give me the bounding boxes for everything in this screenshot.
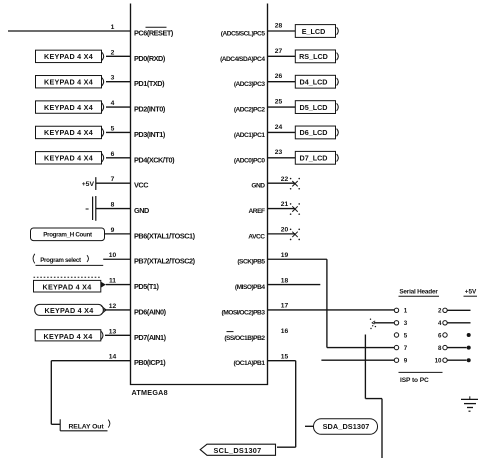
svg-text:13: 13 [109, 328, 117, 335]
svg-text:(ADC4/SDA)PC4: (ADC4/SDA)PC4 [220, 56, 265, 63]
wire pin 23 [268, 157, 296, 159]
net flag KEYPAD 4 X4 (pin 5) [36, 126, 104, 138]
svg-text:E_LCD: E_LCD [302, 27, 326, 36]
svg-text:8: 8 [111, 202, 115, 209]
svg-text:9: 9 [111, 227, 115, 234]
no-connect cross pin 20 [290, 228, 300, 240]
svg-text:ISP to PC: ISP to PC [400, 377, 429, 384]
ISP to PC overline [399, 371, 443, 373]
svg-text:10: 10 [109, 252, 117, 259]
svg-text:D4_LCD: D4_LCD [300, 78, 328, 87]
svg-text:+5V: +5V [82, 181, 95, 188]
wire pin 13 [105, 334, 131, 336]
net flag SCL_DS1307 [200, 444, 275, 455]
svg-text:PD3(INT1): PD3(INT1) [134, 130, 166, 139]
svg-text:KEYPAD 4 X4: KEYPAD 4 X4 [44, 128, 93, 137]
no-connect cross pin 22 [290, 178, 300, 190]
svg-text:5: 5 [111, 125, 115, 132]
junction dot pin 10 [467, 358, 471, 362]
svg-text:(ADC2)PC2: (ADC2)PC2 [234, 107, 266, 114]
header pin 5 circle [394, 333, 398, 337]
header pin 3 circle [394, 321, 398, 325]
power +5V bar [95, 177, 97, 190]
wire pin 17 MOSI to header pin 1 [268, 309, 395, 311]
svg-text:PD0(RXD): PD0(RXD) [134, 54, 166, 63]
svg-text:D6_LCD: D6_LCD [300, 128, 328, 137]
wire pin 27 [268, 55, 296, 57]
wire pin 6 [106, 157, 131, 159]
svg-text:4: 4 [111, 100, 115, 107]
net flag E_LCD [295, 25, 338, 38]
net flag KEYPAD 4 X4 (pin 13) [35, 330, 103, 341]
svg-text:2: 2 [111, 49, 115, 56]
wire pin 22 [268, 182, 295, 184]
net flag Program_H Count [31, 228, 105, 241]
ground bar long [95, 196, 97, 221]
svg-text:(MISO)PB4: (MISO)PB4 [235, 284, 265, 291]
svg-text:1: 1 [111, 24, 115, 31]
svg-text:PB7(XTAL2/TOSC2): PB7(XTAL2/TOSC2) [134, 257, 196, 266]
svg-text:(ADC3)PC3: (ADC3)PC3 [234, 81, 266, 88]
svg-text:PD7(AIN1): PD7(AIN1) [134, 333, 167, 342]
wire pin 3 [106, 81, 131, 83]
svg-text:12: 12 [109, 303, 117, 310]
svg-text:KEYPAD 4 X4: KEYPAD 4 X4 [45, 306, 94, 315]
svg-text:6: 6 [438, 332, 442, 339]
svg-text:RELAY Out: RELAY Out [69, 423, 105, 430]
svg-text:GND: GND [134, 206, 149, 215]
header pin 1 circle [394, 308, 398, 312]
svg-text:11: 11 [109, 278, 116, 285]
wire pin 26 [268, 81, 296, 83]
junction dot pin 8 [467, 346, 471, 350]
wire pin 19 SCK horizontal [268, 258, 327, 260]
wire pin 28 [268, 30, 296, 32]
wire SCK to header pin 7 [327, 347, 394, 349]
svg-text:GND: GND [251, 183, 265, 190]
svg-text:(OC1A)PB1: (OC1A)PB1 [233, 360, 265, 367]
header pin 2 circle [443, 308, 447, 312]
wire SDA stub [305, 425, 313, 427]
svg-text:1: 1 [404, 308, 408, 315]
wire pin1 /RESET to left edge [8, 30, 131, 32]
svg-text:9: 9 [404, 358, 408, 365]
wire pin 24 [268, 131, 296, 133]
svg-text:3: 3 [404, 320, 408, 327]
svg-text:(ADC5/SCL)PC5: (ADC5/SCL)PC5 [221, 31, 266, 38]
pin 16 overline over SS [227, 331, 234, 333]
wire to relay flag [51, 423, 60, 425]
svg-text:Program_H Count: Program_H Count [43, 232, 92, 239]
svg-text:D5_LCD: D5_LCD [300, 103, 328, 112]
+5V underline [464, 295, 478, 297]
header pin 9 circle [394, 358, 398, 362]
svg-text:PD6(AIN0): PD6(AIN0) [134, 307, 167, 316]
wire pin 2 [106, 55, 131, 57]
svg-text:7: 7 [404, 345, 408, 352]
svg-text:16: 16 [281, 328, 289, 335]
svg-text:10: 10 [435, 358, 442, 365]
wire pin 4 [106, 106, 131, 108]
svg-text:4: 4 [438, 320, 442, 327]
wire header pin 4 [447, 322, 470, 324]
header pin 6 circle [443, 333, 447, 337]
net flag D7_LCD [295, 151, 338, 164]
svg-text:27: 27 [275, 48, 283, 55]
svg-text:25: 25 [275, 98, 283, 105]
wire pin 14 vertical [50, 361, 52, 425]
svg-text:SDA_DS1307: SDA_DS1307 [323, 422, 370, 431]
svg-text:PB6(XTAL1/TOSC1): PB6(XTAL1/TOSC1) [134, 231, 196, 240]
wire pin 14 horizontal [51, 360, 130, 362]
wire pin 12 [103, 309, 130, 311]
wire header pin 10 [447, 359, 466, 361]
svg-text:19: 19 [281, 252, 289, 259]
net flag RELAY Out [60, 419, 110, 431]
svg-text:22: 22 [281, 176, 289, 183]
wire SCK vertical [326, 259, 328, 347]
junction dot pin 6 [467, 333, 471, 337]
svg-text:8: 8 [438, 345, 442, 352]
svg-text:ATMEGA8: ATMEGA8 [132, 388, 168, 397]
wire pin 7 VCC [96, 182, 131, 184]
svg-text:VCC: VCC [134, 181, 149, 190]
pin 1 overline over RESET [146, 26, 167, 28]
svg-text:Program select: Program select [40, 257, 81, 264]
net flag KEYPAD 4 X4 (pin 2) [36, 50, 104, 62]
wire pin 15 horizontal [268, 360, 296, 362]
no-connect cross pin 21 [290, 203, 300, 215]
svg-text:KEYPAD 4 X4: KEYPAD 4 X4 [44, 154, 93, 163]
header pin 10 circle [443, 358, 447, 362]
svg-text:AVCC: AVCC [248, 233, 265, 240]
svg-text:17: 17 [281, 303, 289, 310]
svg-text:PC6(RESET): PC6(RESET) [134, 29, 174, 38]
svg-text:(SS/OC1B)PB2: (SS/OC1B)PB2 [224, 335, 265, 342]
svg-text:2: 2 [438, 308, 442, 315]
ground [461, 399, 478, 411]
net flag KEYPAD 4 X4 (pin 3) [36, 76, 104, 88]
svg-text:PD5(T1): PD5(T1) [134, 282, 159, 291]
wire header pin 5 jog [365, 398, 382, 400]
wire pin 20 [268, 233, 295, 235]
net flag D6_LCD [295, 126, 338, 139]
header pin 4 circle [443, 321, 447, 325]
svg-text:D7_LCD: D7_LCD [300, 154, 328, 163]
wire pin 8 GND [96, 208, 131, 210]
wire pin 11 [106, 284, 131, 286]
wire pin 15 vertical [295, 361, 297, 448]
svg-text:6: 6 [111, 151, 115, 158]
svg-text:(MOSI/OC2)PB3: (MOSI/OC2)PB3 [222, 309, 266, 316]
serial header title underline [399, 295, 440, 297]
net flag D4_LCD [295, 75, 338, 88]
svg-text:SCL_DS1307: SCL_DS1307 [214, 446, 262, 455]
svg-text:26: 26 [275, 73, 283, 80]
wire header pin 5 vertical [364, 335, 366, 399]
svg-text:(ADC0)PC0: (ADC0)PC0 [234, 157, 266, 164]
svg-text:7: 7 [111, 176, 115, 183]
net flag KEYPAD 4 X4 (pin 11) [34, 280, 106, 292]
net flag SDA_DS1307 [314, 419, 378, 435]
wire header pin 3 with arrow [370, 319, 395, 330]
svg-text:(ADC1)PC1: (ADC1)PC1 [234, 132, 266, 139]
wire pin 10 [103, 258, 130, 260]
svg-text:23: 23 [275, 149, 283, 156]
svg-text:KEYPAD 4 X4: KEYPAD 4 X4 [44, 103, 93, 112]
svg-text:RS_LCD: RS_LCD [299, 52, 328, 61]
svg-text:(SCK)PB5: (SCK)PB5 [237, 259, 265, 266]
svg-text:KEYPAD 4 X4: KEYPAD 4 X4 [43, 282, 92, 291]
net flag Program select [33, 254, 103, 266]
svg-text:3: 3 [111, 75, 115, 82]
dotted line above pin11 flag [34, 276, 101, 278]
svg-text:PD2(INT0): PD2(INT0) [134, 105, 166, 114]
wire pin 9 [105, 233, 131, 235]
ground minus tick [86, 208, 89, 210]
svg-text:KEYPAD 4 X4: KEYPAD 4 X4 [44, 332, 93, 341]
op-amp U1 ATMEGA8 IC body (top edge cut off) [131, 4, 268, 385]
svg-text:PB0(ICP1): PB0(ICP1) [134, 358, 166, 367]
svg-text:18: 18 [281, 277, 289, 284]
svg-text:21: 21 [281, 201, 289, 208]
net flag RS_LCD [295, 50, 338, 63]
svg-text:20: 20 [281, 227, 289, 234]
svg-text:PD1(TXD): PD1(TXD) [134, 79, 165, 88]
net flag KEYPAD 4 X4 (pin 6) [36, 152, 104, 164]
header pin 8 circle [443, 345, 447, 349]
wire to SCL flag [277, 446, 296, 448]
wire header pin 8 [447, 347, 466, 349]
wire header pin 5 down to edge [381, 399, 383, 458]
wire header pin 9 [321, 359, 394, 361]
svg-text:5: 5 [404, 332, 408, 339]
svg-text:24: 24 [275, 124, 283, 131]
wire pin 25 [268, 106, 296, 108]
wire header pin 2 [447, 309, 470, 311]
header pin 7 circle [394, 345, 398, 349]
wire pin 5 [106, 131, 131, 133]
net flag D5_LCD [295, 101, 338, 114]
ground stub [469, 396, 471, 399]
net flag KEYPAD 4 X4 (pin 12) [35, 304, 107, 315]
svg-text:+5V: +5V [465, 289, 477, 296]
svg-text:Serial Header: Serial Header [399, 289, 438, 296]
svg-text:15: 15 [281, 353, 289, 360]
svg-text:AREF: AREF [249, 208, 265, 215]
svg-text:KEYPAD 4 X4: KEYPAD 4 X4 [44, 52, 93, 61]
ground bar second [92, 197, 94, 221]
svg-text:28: 28 [275, 22, 283, 29]
wire pin 18 MISO [268, 284, 321, 286]
net flag KEYPAD 4 X4 (pin 4) [36, 101, 104, 113]
svg-text:14: 14 [109, 354, 117, 361]
svg-text:KEYPAD 4 X4: KEYPAD 4 X4 [44, 78, 93, 87]
wire pin 21 [268, 208, 295, 210]
svg-text:PD4(XCK/T0): PD4(XCK/T0) [134, 155, 175, 164]
